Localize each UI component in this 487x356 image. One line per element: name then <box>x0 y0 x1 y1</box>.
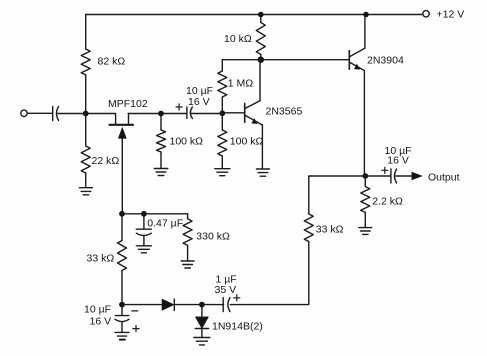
capacitor C3 0.47 uF <box>136 214 183 245</box>
wire node B down to R3 <box>160 114 162 131</box>
svg-text:35 V: 35 V <box>215 284 237 296</box>
svg-text:1 MΩ: 1 MΩ <box>228 78 254 90</box>
resistor R4 100 k <box>218 130 227 156</box>
wire node E to C4 <box>365 175 390 177</box>
svg-text:16 V: 16 V <box>188 96 210 108</box>
svg-text:2.2 kΩ: 2.2 kΩ <box>372 196 403 208</box>
ground R2 <box>79 188 92 195</box>
resistor R1 82 k <box>81 49 90 75</box>
node F <box>199 302 205 308</box>
svg-text:82 kΩ: 82 kΩ <box>98 56 126 68</box>
svg-text:33 kΩ: 33 kΩ <box>316 224 344 236</box>
wire node C up to R5 <box>221 97 223 113</box>
svg-text:10 kΩ: 10 kΩ <box>224 33 252 45</box>
wire node E down to R7 <box>364 176 366 187</box>
wire D1 to node G <box>122 304 163 306</box>
wire input to C1 <box>27 112 52 114</box>
transistor Q1 MPF102 JFET <box>108 98 148 214</box>
svg-text:MPF102: MPF102 <box>108 98 148 110</box>
diode D1 <box>162 299 174 310</box>
svg-text:100 kΩ: 100 kΩ <box>170 136 204 148</box>
wire C-in to gate node <box>58 113 86 115</box>
node C <box>219 110 225 116</box>
wire node A to JFET drain <box>86 113 115 115</box>
resistor R9 33 k <box>118 241 127 271</box>
terminal input <box>21 110 27 116</box>
resistor R5 1 M <box>218 71 227 97</box>
svg-text:1N914B(2): 1N914B(2) <box>212 321 263 333</box>
wire R1 top to rail <box>85 15 87 50</box>
wire C2 to node C <box>192 113 223 115</box>
wire node D to Q2 base <box>261 59 348 61</box>
wire node G up to R9 <box>121 271 123 305</box>
wire JFET source to node B <box>128 113 161 115</box>
resistor R7 2.2 k <box>361 187 370 213</box>
wire C4 to output arrow <box>396 175 412 177</box>
capacitor C6 1 uF 35 V <box>215 274 240 312</box>
output arrow <box>412 172 423 181</box>
node H <box>119 211 125 217</box>
node G <box>119 302 125 308</box>
svg-text:2N3904: 2N3904 <box>367 55 404 67</box>
node A gate bias node <box>83 111 89 117</box>
wire C6 to node F <box>202 304 224 306</box>
wire R8 down and left to C6 <box>230 242 308 305</box>
wire node E to feedback branch <box>309 176 366 214</box>
svg-text:Output: Output <box>428 172 460 184</box>
svg-text:2N3565: 2N3565 <box>266 106 303 118</box>
node rail-10k junction <box>258 12 264 18</box>
capacitor C5 10 uF 16 V bottom <box>84 304 139 332</box>
ground C5 <box>115 332 129 339</box>
node rail-Q2 collector junction <box>363 12 369 18</box>
wire R3 to ground <box>160 152 162 168</box>
wire rail to R6 <box>260 15 262 23</box>
wire corner to R10 <box>187 214 189 219</box>
wire node H to node I and corner <box>122 213 188 215</box>
wire node A up to R1 <box>85 75 87 114</box>
node D <box>258 57 264 63</box>
terminal +12V <box>423 11 429 17</box>
wire R9 to node H <box>121 214 123 241</box>
capacitor C4 10 uF 16 V output <box>382 145 412 183</box>
wire +12V top rail <box>86 14 423 16</box>
svg-text:33 kΩ: 33 kΩ <box>87 253 115 265</box>
capacitor C-in <box>52 107 54 121</box>
ground Q3 emitter <box>256 169 269 176</box>
wire R4 to ground <box>221 156 223 168</box>
resistor R10 330 k <box>183 219 192 249</box>
ground D2 <box>194 338 210 345</box>
node I <box>141 211 147 217</box>
ground R3 <box>154 169 168 176</box>
wire R6 to node D <box>260 55 262 60</box>
ground R7 <box>359 228 372 235</box>
ground C3 <box>136 246 151 253</box>
svg-text:16 V: 16 V <box>387 155 409 167</box>
wire node C down to R4 <box>221 113 223 130</box>
wire R2 to ground <box>85 173 87 187</box>
wire node A down to R2 <box>85 114 87 147</box>
resistor R3 100 k <box>157 130 166 152</box>
svg-text:100 kΩ: 100 kΩ <box>230 136 264 148</box>
capacitor C2 10 uF 16 V <box>176 85 213 119</box>
resistor R8 33 k <box>304 214 313 242</box>
svg-text:0.47 µF: 0.47 µF <box>147 218 183 230</box>
svg-text:10 µF: 10 µF <box>84 304 111 316</box>
ground R4 <box>215 169 230 176</box>
resistor R6 10 k <box>256 23 265 55</box>
svg-text:330 kΩ: 330 kΩ <box>196 231 230 243</box>
transistor Q3 2N3565 <box>222 60 302 169</box>
node B <box>158 111 164 117</box>
node E output node <box>362 173 368 179</box>
wire R10 to ground <box>187 249 189 261</box>
svg-text:+12 V: +12 V <box>437 9 465 21</box>
svg-text:22 kΩ: 22 kΩ <box>92 155 120 167</box>
wire R7 to ground <box>364 212 366 227</box>
wire R5 top to node D <box>222 60 260 71</box>
diode D2 1N914B(2) <box>195 305 263 337</box>
resistor R2 22 k <box>81 146 90 173</box>
wire node B to C2 <box>161 113 186 115</box>
svg-text:16 V: 16 V <box>90 316 112 328</box>
wire node F to D1 <box>175 304 202 306</box>
ground R10 <box>181 261 194 268</box>
transistor Q2 2N3904 <box>349 15 404 177</box>
